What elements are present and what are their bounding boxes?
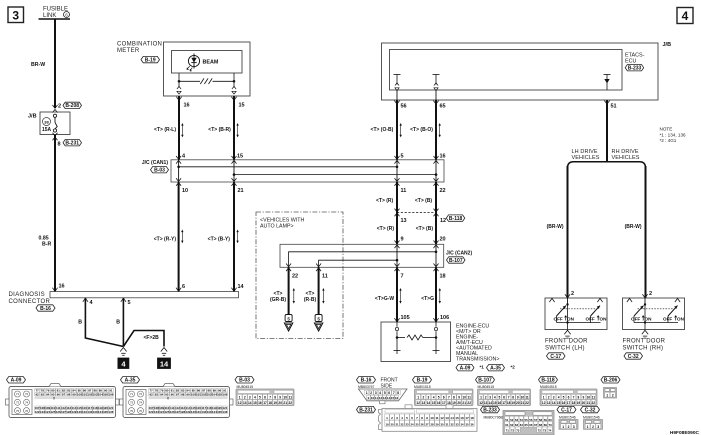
svg-text:METER: METER [117, 48, 140, 54]
svg-text:101: 101 [196, 392, 201, 396]
svg-text:51: 51 [611, 104, 617, 110]
svg-text:RH DRIVE: RH DRIVE [612, 149, 639, 155]
svg-text:17: 17 [502, 401, 506, 405]
svg-text:6: 6 [264, 396, 266, 400]
svg-text:13: 13 [401, 218, 407, 224]
svg-text:B-16: B-16 [40, 306, 51, 312]
svg-text:127: 127 [175, 410, 180, 414]
svg-text:21: 21 [238, 188, 244, 194]
svg-text:99: 99 [186, 392, 190, 396]
svg-text:MU801546: MU801546 [559, 416, 576, 420]
svg-text:130: 130 [191, 410, 196, 414]
ETACS pin 65 terminal [433, 74, 440, 76]
svg-text:26: 26 [420, 422, 424, 426]
wire BR-W to RH door switch [645, 166, 647, 298]
svg-text:10: 10 [371, 396, 375, 400]
svg-text:5: 5 [287, 316, 290, 321]
svg-text:*2: *2 [511, 364, 516, 369]
svg-text:OFF: OFF [586, 317, 595, 322]
svg-text:12: 12 [542, 401, 546, 405]
svg-text:114: 114 [186, 406, 191, 410]
svg-text:96: 96 [57, 392, 61, 396]
wire T R segment pin11 to B-118 pin13 [396, 182, 398, 244]
svg-text:89: 89 [213, 389, 217, 393]
svg-text:114: 114 [72, 406, 77, 410]
svg-text:121: 121 [108, 406, 113, 410]
svg-text:65: 65 [524, 423, 528, 427]
svg-text:10: 10 [521, 396, 525, 400]
svg-text:34: 34 [460, 422, 464, 426]
svg-text:72: 72 [25, 392, 29, 396]
svg-text:72: 72 [538, 429, 542, 433]
svg-text:VEHICLES: VEHICLES [612, 155, 640, 161]
engine ECU internal grounds [396, 338, 398, 351]
CAN1 bus line lower [234, 174, 436, 176]
svg-text:38: 38 [44, 119, 49, 124]
page frame ref 3 [8, 7, 24, 23]
svg-text:22: 22 [292, 274, 298, 280]
svg-text:11: 11 [375, 396, 379, 400]
svg-text:113: 113 [66, 406, 71, 410]
svg-text:15: 15 [493, 401, 497, 405]
svg-text:106: 106 [108, 392, 113, 396]
svg-text:14: 14 [488, 401, 492, 405]
wires through CAN1 box [178, 160, 180, 182]
svg-text:NOTE: NOTE [660, 127, 673, 132]
svg-text:14: 14 [387, 396, 391, 400]
meter internal wiring to pins 16 and 15 [178, 73, 180, 81]
wires through CAN2 box [396, 244, 398, 267]
svg-text:1: 1 [587, 425, 589, 429]
svg-text:80: 80 [51, 389, 55, 393]
svg-text:119: 119 [212, 406, 217, 410]
svg-text:11: 11 [525, 396, 529, 400]
svg-text:104: 104 [212, 392, 217, 396]
svg-text:8: 8 [274, 396, 276, 400]
svg-text:<T>: <T> [306, 291, 315, 297]
svg-text:109: 109 [159, 406, 164, 410]
svg-text:13: 13 [445, 416, 449, 420]
svg-text:100: 100 [191, 392, 196, 396]
svg-text:<T> (R): <T> (R) [377, 226, 395, 232]
svg-text:125: 125 [50, 410, 55, 414]
svg-text:22: 22 [440, 188, 446, 194]
svg-text:MU801515: MU801515 [414, 385, 431, 389]
svg-text:72: 72 [511, 429, 515, 433]
svg-text:76: 76 [139, 409, 143, 413]
svg-text:<F>2B: <F>2B [144, 335, 160, 341]
svg-text:7: 7 [393, 391, 395, 395]
svg-text:8: 8 [58, 141, 61, 147]
svg-text:5: 5 [563, 396, 565, 400]
svg-text:113: 113 [180, 406, 185, 410]
front door switch LH C-17 [545, 298, 607, 330]
svg-text:111: 111 [56, 406, 61, 410]
svg-text:75: 75 [130, 409, 134, 413]
svg-text:68: 68 [539, 423, 543, 427]
svg-text:(R-B): (R-B) [304, 297, 317, 303]
svg-text:116: 116 [196, 406, 201, 410]
svg-text:3: 3 [573, 425, 575, 429]
svg-text:<T> (O-B): <T> (O-B) [371, 127, 394, 133]
svg-text:136: 136 [108, 410, 113, 414]
svg-text:9: 9 [517, 396, 519, 400]
svg-text:<T> (B-Y): <T> (B-Y) [208, 237, 231, 243]
svg-text:16: 16 [59, 283, 65, 289]
svg-text:60: 60 [548, 418, 552, 422]
diagnosis pins 4 and 5 [83, 298, 88, 302]
svg-text:12: 12 [238, 401, 242, 405]
fuse 38 15A [43, 118, 51, 126]
svg-text:MB80C796B: MB80C796B [484, 416, 504, 420]
CAN1 bus line upper [179, 166, 397, 168]
svg-text:18: 18 [268, 401, 272, 405]
svg-text:16: 16 [258, 401, 262, 405]
svg-text:17: 17 [567, 401, 571, 405]
svg-text:5: 5 [406, 416, 408, 420]
svg-text:FUSIBLE: FUSIBLE [43, 7, 68, 13]
svg-text:73: 73 [516, 429, 520, 433]
svg-text:73: 73 [130, 401, 134, 405]
svg-text:125: 125 [164, 410, 169, 414]
svg-text:90: 90 [218, 389, 222, 393]
svg-text:121: 121 [222, 406, 227, 410]
svg-text:83: 83 [181, 389, 185, 393]
svg-text:79: 79 [160, 389, 164, 393]
svg-text:FRONT: FRONT [381, 378, 398, 384]
svg-text:21: 21 [283, 401, 287, 405]
svg-text:17: 17 [442, 401, 446, 405]
svg-text:126: 126 [56, 410, 61, 414]
wire T B segment pin22 to B-118 pin12 [435, 182, 437, 244]
svg-text:128: 128 [180, 410, 185, 414]
svg-text:104: 104 [98, 392, 103, 396]
svg-text:(BR-W): (BR-W) [547, 224, 564, 230]
svg-text:11: 11 [289, 396, 293, 400]
svg-text:91: 91 [109, 389, 113, 393]
svg-text:<T> (B-R): <T> (B-R) [208, 127, 231, 133]
svg-text:56: 56 [529, 418, 533, 422]
svg-text:2: 2 [568, 425, 570, 429]
svg-text:B-19: B-19 [145, 57, 156, 63]
meter pin 15 [231, 97, 236, 100]
svg-text:5: 5 [438, 396, 440, 400]
svg-text:99: 99 [72, 392, 76, 396]
svg-text:10: 10 [182, 188, 188, 194]
svg-text:11: 11 [468, 396, 472, 400]
svg-text:5: 5 [317, 316, 320, 321]
wire T B-O ETACS 65 to J/C CAN1 pin 16 [435, 100, 437, 160]
svg-text:82: 82 [62, 389, 66, 393]
inline connector B-118 interface [397, 211, 436, 213]
svg-text:J/C (CAN1): J/C (CAN1) [142, 160, 168, 166]
connector pinout A-35 [121, 377, 140, 383]
svg-text:35: 35 [465, 422, 469, 426]
svg-text:70: 70 [548, 423, 552, 427]
svg-text:16: 16 [562, 401, 566, 405]
svg-text:9: 9 [426, 416, 428, 420]
svg-text:8: 8 [421, 416, 423, 420]
svg-text:19: 19 [511, 401, 515, 405]
svg-text:17: 17 [263, 401, 267, 405]
svg-text:SIDE: SIDE [381, 383, 393, 389]
svg-text:*1 : 134, 136: *1 : 134, 136 [660, 132, 686, 137]
svg-text:3: 3 [553, 396, 555, 400]
svg-text:20: 20 [516, 401, 520, 405]
junction block J/B outer box [382, 43, 659, 100]
svg-text:72: 72 [139, 392, 143, 396]
svg-text:84: 84 [72, 389, 76, 393]
svg-text:20: 20 [457, 401, 461, 405]
svg-text:6: 6 [503, 396, 505, 400]
wire B from pin 5 to ground [122, 298, 124, 347]
svg-text:115: 115 [77, 406, 82, 410]
svg-text:4: 4 [682, 9, 689, 23]
svg-text:98: 98 [181, 392, 185, 396]
svg-text:59: 59 [544, 418, 548, 422]
svg-text:132: 132 [201, 410, 206, 414]
svg-text:2: 2 [391, 416, 393, 420]
wire T R-Y CAN1 pin10 to diagnosis pin 6 [178, 182, 180, 292]
svg-text:56: 56 [401, 104, 407, 110]
engine ECU pin coils [396, 322, 398, 326]
svg-text:135: 135 [103, 410, 108, 414]
svg-text:7: 7 [448, 396, 450, 400]
svg-text:B-03: B-03 [239, 378, 250, 384]
svg-text:J/C (CAN2): J/C (CAN2) [446, 250, 472, 256]
svg-text:122: 122 [149, 410, 154, 414]
shield terminal 5 right [315, 315, 322, 322]
svg-text:C-32: C-32 [628, 354, 639, 360]
svg-text:11: 11 [322, 274, 328, 280]
svg-text:11: 11 [401, 188, 407, 194]
svg-text:124: 124 [159, 410, 164, 414]
svg-text:9: 9 [401, 236, 404, 242]
connector pinout B-231 [357, 406, 376, 412]
svg-text:4: 4 [433, 396, 435, 400]
page frame ref 4 [677, 8, 693, 24]
svg-text:J/B: J/B [28, 114, 37, 120]
svg-text:97: 97 [62, 392, 66, 396]
connector B-208 pin 2 [53, 105, 58, 108]
svg-text:77: 77 [35, 389, 39, 393]
svg-text:23: 23 [405, 422, 409, 426]
svg-text:69: 69 [544, 423, 548, 427]
wire T G-W CAN2 pin7 to engine ECU 105 [396, 267, 398, 322]
svg-text:25: 25 [415, 422, 419, 426]
svg-text:1: 1 [480, 396, 482, 400]
svg-text:<T>: <T> [274, 291, 283, 297]
wire T G CAN2 pin18 to engine ECU 106 [435, 267, 437, 322]
svg-text:*1: *1 [480, 364, 485, 369]
svg-text:2: 2 [649, 291, 652, 297]
svg-text:2: 2 [612, 393, 614, 397]
svg-text:MU804515: MU804515 [478, 385, 495, 389]
svg-text:52: 52 [510, 418, 514, 422]
svg-text:5: 5 [128, 300, 131, 306]
svg-text:A-35: A-35 [490, 366, 501, 372]
svg-text:LH DRIVE: LH DRIVE [572, 149, 598, 155]
svg-text:16: 16 [184, 103, 190, 109]
svg-text:117: 117 [201, 406, 206, 410]
wire BR-W ETACS 51 down [606, 100, 608, 162]
front door switch RH C-32 [623, 298, 685, 330]
svg-text:3: 3 [12, 9, 19, 23]
connector pinout B-03 [235, 377, 254, 383]
connector pinout B-16 front side [357, 377, 376, 383]
svg-text:3: 3 [396, 416, 398, 420]
svg-text:2: 2 [485, 396, 487, 400]
svg-text:5: 5 [401, 153, 404, 159]
svg-text:<T>G-W: <T>G-W [375, 296, 394, 302]
svg-text:16: 16 [460, 416, 464, 420]
svg-text:105: 105 [103, 392, 108, 396]
svg-text:65: 65 [440, 104, 446, 110]
svg-text:16: 16 [395, 396, 399, 400]
svg-text:C-32: C-32 [585, 407, 596, 413]
svg-text:22: 22 [592, 401, 596, 405]
svg-text:A-35: A-35 [125, 378, 136, 384]
svg-text:13: 13 [547, 401, 551, 405]
svg-text:B-231: B-231 [65, 141, 79, 147]
svg-text:7: 7 [401, 274, 404, 280]
svg-text:13: 13 [422, 401, 426, 405]
svg-text:*2 : 4G1: *2 : 4G1 [660, 138, 677, 143]
svg-text:A-09: A-09 [11, 378, 22, 384]
svg-text:DIAGNOSIS: DIAGNOSIS [9, 292, 46, 298]
meter pin 16 [176, 97, 181, 100]
wire T R-L meter pin16 to J/C CAN1 pin 4 [178, 96, 180, 160]
svg-text:126: 126 [170, 410, 175, 414]
svg-text:22: 22 [400, 422, 404, 426]
svg-text:B-206: B-206 [604, 378, 618, 384]
svg-text:2: 2 [592, 425, 594, 429]
svg-text:17: 17 [465, 416, 469, 420]
svg-text:108: 108 [40, 406, 45, 410]
ETACS pin 65 exit [435, 90, 437, 100]
svg-text:2: 2 [244, 396, 246, 400]
svg-text:67: 67 [534, 423, 538, 427]
engine ECU box [381, 322, 451, 362]
svg-text:8: 8 [578, 396, 580, 400]
svg-text:1: 1 [386, 416, 388, 420]
ground 4 [120, 348, 126, 352]
svg-text:64: 64 [520, 423, 524, 427]
svg-text:103: 103 [207, 392, 212, 396]
svg-text:<T> (R-Y): <T> (R-Y) [154, 237, 177, 243]
svg-text:B-231: B-231 [359, 407, 373, 413]
svg-text:3: 3 [597, 425, 599, 429]
svg-text:57: 57 [534, 418, 538, 422]
svg-text:98: 98 [67, 392, 71, 396]
svg-text:107: 107 [149, 406, 154, 410]
svg-text:12: 12 [379, 396, 383, 400]
svg-text:87: 87 [202, 389, 206, 393]
svg-text:127: 127 [61, 410, 66, 414]
branch wire junction [568, 162, 646, 168]
svg-text:6: 6 [388, 391, 390, 395]
svg-text:21: 21 [462, 401, 466, 405]
svg-text:108: 108 [154, 406, 159, 410]
svg-text:3: 3 [375, 391, 377, 395]
svg-text:<T> (R): <T> (R) [376, 198, 394, 204]
svg-text:4: 4 [558, 396, 560, 400]
svg-text:62: 62 [510, 423, 514, 427]
svg-text:88: 88 [207, 389, 211, 393]
high beam indicator lamp BEAM [188, 55, 199, 66]
svg-text:94: 94 [160, 392, 164, 396]
connector B-231 pin 8 [53, 133, 58, 136]
svg-text:106: 106 [222, 392, 227, 396]
joint connector J/C CAN2 B-107 [280, 244, 444, 267]
svg-text:71: 71 [130, 392, 134, 396]
svg-text:101: 101 [82, 392, 87, 396]
svg-text:B-233: B-233 [628, 66, 642, 72]
wire BR-W fusible link to J/B [54, 19, 56, 108]
svg-text:96: 96 [171, 392, 175, 396]
svg-text:12: 12 [440, 416, 444, 420]
svg-text:2: 2 [58, 104, 61, 110]
svg-text:18: 18 [507, 401, 511, 405]
svg-text:J/B: J/B [663, 42, 672, 48]
svg-text:123: 123 [154, 410, 159, 414]
svg-text:54: 54 [520, 418, 524, 422]
svg-text:OFF: OFF [554, 317, 563, 322]
svg-text:OFF: OFF [631, 317, 640, 322]
svg-text:103: 103 [93, 392, 98, 396]
svg-text:4: 4 [254, 396, 256, 400]
svg-text:10: 10 [430, 416, 434, 420]
vehicles with auto lamp dashed box [256, 212, 343, 339]
svg-text:14: 14 [248, 401, 252, 405]
svg-text:13: 13 [484, 401, 488, 405]
svg-text:85: 85 [192, 389, 196, 393]
svg-text:3: 3 [428, 396, 430, 400]
svg-text:14: 14 [160, 360, 169, 369]
svg-text:89: 89 [99, 389, 103, 393]
svg-text:74: 74 [139, 401, 143, 405]
wire T O-B ETACS 56 to J/C CAN1 pin 5 [396, 100, 398, 160]
svg-text:B-107: B-107 [449, 258, 463, 264]
svg-text:SWITCH (RH): SWITCH (RH) [623, 346, 664, 352]
svg-text:2: 2 [423, 396, 425, 400]
svg-text:134: 134 [212, 410, 217, 414]
svg-text:9: 9 [458, 396, 460, 400]
svg-text:97: 97 [176, 392, 180, 396]
svg-text:74: 74 [548, 429, 552, 433]
svg-text:61: 61 [505, 423, 509, 427]
svg-text:1: 1 [606, 393, 608, 397]
svg-text:92: 92 [149, 392, 153, 396]
svg-text:66: 66 [529, 423, 533, 427]
svg-text:15: 15 [557, 401, 561, 405]
svg-text:7: 7 [508, 396, 510, 400]
svg-text:6: 6 [568, 396, 570, 400]
svg-text:116: 116 [82, 406, 87, 410]
wire BR-W to LH door switch [567, 166, 569, 298]
svg-text:112: 112 [175, 406, 180, 410]
svg-text:20: 20 [390, 422, 394, 426]
svg-text:122: 122 [35, 410, 40, 414]
svg-text:MU801546: MU801546 [583, 416, 600, 420]
svg-text:83: 83 [67, 389, 71, 393]
ETACS pin 56 exit [396, 90, 398, 100]
svg-text:8: 8 [512, 396, 514, 400]
svg-text:2: 2 [370, 391, 372, 395]
connector pinout C-32 pins [581, 406, 600, 412]
svg-text:4: 4 [379, 391, 381, 395]
svg-text:AUTO LAMP>: AUTO LAMP> [260, 224, 294, 230]
